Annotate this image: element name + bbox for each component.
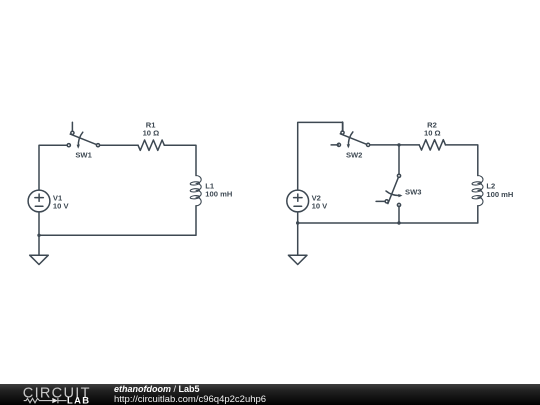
wire V2 top to SW2 top throw	[298, 122, 343, 189]
node junction SW3 bottom rail	[397, 221, 400, 224]
voltage source V2	[287, 190, 309, 212]
resistor R2	[419, 140, 445, 150]
wire V1 top to SW1 left terminal	[39, 145, 67, 190]
node junction at top of SW3 branch	[397, 143, 400, 146]
svg-text:10 Ω: 10 Ω	[424, 129, 441, 138]
switch SW1	[67, 122, 99, 148]
svg-text:SW1: SW1	[75, 151, 92, 160]
logo resistor squiggle and diode	[24, 398, 67, 403]
svg-text:10 V: 10 V	[53, 202, 70, 211]
svg-text:100 mH: 100 mH	[205, 190, 232, 199]
svg-text:LAB: LAB	[67, 394, 90, 405]
wire L1 bottom rail back to V1	[39, 206, 196, 236]
label R2 10 Ohm	[424, 121, 441, 138]
svg-text:SW3: SW3	[405, 187, 421, 196]
ground (left)	[30, 255, 49, 264]
switch SW3	[376, 174, 402, 206]
wire L2 bottom rail back to V2	[298, 206, 478, 223]
svg-text:10 Ω: 10 Ω	[143, 129, 160, 138]
wire SW2 open stub (left)	[331, 144, 338, 146]
wire V2 ground stub	[297, 223, 299, 255]
label V1 10 V	[53, 193, 70, 210]
wire SW3 bottom to rail	[398, 206, 400, 223]
resistor R1	[138, 140, 164, 150]
label R1 10 Ohm	[143, 121, 160, 138]
svg-text:100 mH: 100 mH	[486, 190, 513, 199]
CircuitLab logo	[18, 384, 98, 405]
svg-text:SW2: SW2	[346, 151, 362, 160]
svg-text:10 V: 10 V	[312, 202, 329, 211]
footer black bar	[0, 384, 540, 405]
switch SW2	[337, 122, 369, 148]
inductor L1	[190, 176, 201, 206]
footer url text	[114, 394, 266, 405]
wire SW2 to R2	[370, 144, 420, 146]
label L2 100 mH	[486, 182, 513, 199]
label V2 10 V	[312, 193, 329, 210]
node junction at V1 bottom	[37, 234, 40, 237]
wire SW3 top branch	[398, 145, 400, 174]
wire R1 to L1 top	[164, 145, 196, 175]
wire V1 ground stub	[38, 235, 40, 255]
voltage source V1	[28, 190, 50, 212]
wire SW1 to R1	[100, 144, 138, 146]
node junction V2 bottom rail	[296, 221, 299, 224]
label L1 100 mH	[205, 181, 232, 198]
wire R2 to L2 top	[446, 145, 478, 176]
footer title text	[114, 384, 200, 394]
inductor L2	[472, 176, 483, 206]
ground (right)	[288, 255, 307, 264]
